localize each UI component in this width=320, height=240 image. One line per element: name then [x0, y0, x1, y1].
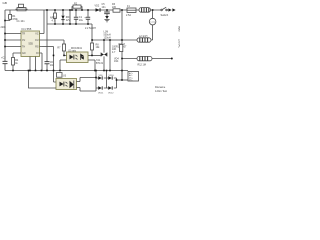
svg-text:+C3: +C3: [1, 57, 6, 60]
svg-text:2.2 5mOH: 2.2 5mOH: [85, 27, 96, 30]
svg-text:VD10: VD10: [109, 75, 115, 77]
svg-text:220: 220: [112, 6, 117, 9]
svg-text:TR: TR: [22, 34, 25, 36]
svg-text:Lamp: Lamp: [150, 21, 155, 23]
svg-text:VC: VC: [35, 34, 39, 36]
svg-text:120uH: 120uH: [104, 37, 111, 40]
svg-text:Input: Input: [178, 26, 181, 32]
svg-text:C1 10n: C1 10n: [17, 20, 26, 23]
svg-text:OU: OU: [35, 40, 39, 42]
svg-text:Switch: Switch: [161, 13, 169, 17]
svg-text:VD11: VD11: [98, 93, 104, 95]
svg-text:BT131: BT131: [96, 62, 104, 65]
svg-text:RS: RS: [35, 47, 39, 49]
svg-text:220k: 220k: [1, 26, 7, 29]
svg-text:1N4: 1N4: [114, 60, 119, 63]
svg-text:4.7: 4.7: [52, 20, 56, 23]
svg-text:10u: 10u: [79, 19, 84, 22]
svg-text:VD12: VD12: [108, 93, 114, 95]
svg-text:555: 555: [29, 42, 34, 46]
svg-text:4-Dim Test: 4-Dim Test: [155, 90, 167, 93]
svg-text:GB: GB: [3, 1, 7, 5]
svg-text:2.5A: 2.5A: [126, 14, 131, 17]
svg-text:220VAC: 220VAC: [178, 39, 181, 48]
svg-text:R12 1M: R12 1M: [138, 63, 146, 66]
svg-text:Filename: Filename: [155, 86, 166, 89]
svg-text:CV: CV: [22, 40, 26, 42]
svg-text:DC-: DC-: [129, 80, 133, 82]
svg-text:VD2: VD2: [95, 4, 100, 7]
svg-text:DI: DI: [36, 53, 39, 55]
svg-text:GN: GN: [22, 53, 26, 55]
svg-text:L2 1mH: L2 1mH: [139, 35, 148, 38]
svg-text:TH: TH: [22, 47, 25, 49]
svg-text:10n: 10n: [102, 6, 107, 9]
svg-text:MOC3041: MOC3041: [71, 47, 83, 50]
